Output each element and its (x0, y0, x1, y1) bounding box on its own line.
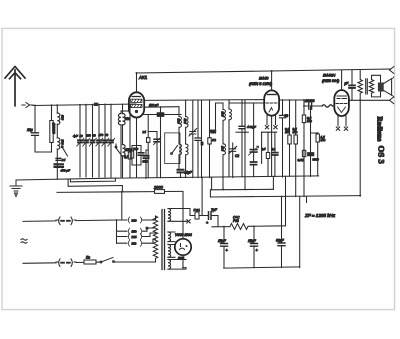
wire E446 top (271, 71, 273, 90)
IF transformer 1 primary coil (177, 107, 182, 144)
wire coupling node down (303, 100, 305, 197)
svg-text:500: 500 (183, 119, 187, 124)
tuning trimmer cap C-a (79, 105, 81, 177)
grid stopper coil DD (322, 105, 333, 107)
svg-text:4-50pF: 4-50pF (247, 125, 256, 129)
cathode bypass cap 10uF (178, 170, 193, 178)
svg-text:P68: P68 (233, 219, 239, 223)
svg-text:500: 500 (61, 115, 65, 120)
wire E446 bottom (271, 116, 273, 177)
svg-text:15μF: 15μF (218, 239, 227, 243)
resistor 0.2 (124, 104, 132, 177)
cap 100pF (149, 103, 163, 178)
IF transformer 2 frame wire (216, 103, 224, 133)
IF transformer 1 secondary coil (183, 100, 188, 144)
svg-text:0,2: 0,2 (124, 155, 129, 159)
transformer primary winding (153, 216, 157, 262)
capacitor 24 rect (142, 115, 150, 178)
transformer winding 3 (168, 245, 175, 258)
wire x223 extension (222, 177, 224, 190)
tuning trimmer cap C-b (85, 105, 87, 177)
svg-text:450 pF: 450 pF (61, 169, 71, 173)
tuning trimmer cap C-c (92, 105, 94, 177)
rectifier to bottom bus (183, 255, 186, 267)
oscillator coil column (123, 104, 133, 177)
osc grid coil to AK1 (118, 111, 121, 177)
power switch (100, 258, 155, 263)
svg-text:(RES 964): (RES 964) (322, 79, 340, 83)
wire AK1 left (grid) (121, 110, 129, 112)
svg-text:(REN S 1254): (REN S 1254) (249, 82, 273, 86)
svg-text:MΩ: MΩ (321, 138, 326, 142)
tone capacitor (344, 70, 355, 100)
bus wire y196.6 (B+) (210, 190, 360, 197)
transformer winding 2 (168, 232, 175, 242)
wire x281.5 to 30uF (281, 197, 283, 243)
filter resistor C+C P68 (212, 216, 286, 230)
svg-text:ZF = 1285 kHz: ZF = 1285 kHz (304, 213, 336, 218)
heater lead X marks (186, 220, 190, 223)
svg-text:500: 500 (61, 140, 65, 145)
cap under variable (251, 162, 257, 177)
voltage selector (117, 216, 156, 246)
electrolytic 15uF b (248, 227, 259, 268)
tuning trimmer cap C-d (98, 105, 100, 178)
electrolytic 7uF (199, 208, 218, 225)
svg-text:E443H: E443H (323, 73, 335, 78)
wire secondary to speaker loop (372, 75, 381, 97)
svg-text:OS 3: OS 3 (376, 146, 386, 165)
svg-text:1MΩ: 1MΩ (210, 129, 217, 133)
svg-text:170: 170 (99, 133, 104, 137)
capacitor 450pF (55, 164, 71, 172)
cathode bypass cap (137, 146, 144, 166)
trimmer C2 (229, 143, 240, 178)
resistor 0.5M grid leak (302, 115, 312, 123)
node x245 dot (244, 131, 246, 133)
tube E443H (334, 90, 349, 116)
svg-text:0,1M: 0,1M (298, 158, 305, 162)
cap 50 x198 (195, 100, 204, 178)
wire selector feed drop (121, 192, 123, 221)
output transformer secondary zigzag (369, 80, 373, 94)
svg-text:700: 700 (133, 147, 138, 151)
trimmer Cs (189, 100, 197, 178)
wire AK1 top to HT top bus (137, 69, 391, 92)
svg-text:100000: 100000 (52, 123, 56, 134)
heater pins E443H (336, 116, 347, 130)
connector pair upper (56, 219, 76, 221)
IF1 switch arm (172, 146, 178, 154)
band switch 2 (116, 148, 122, 156)
svg-text:5000: 5000 (313, 158, 320, 162)
wire y131.5 (148, 131, 157, 133)
band switch box (165, 133, 180, 164)
wire AVC feed y132 (236, 131, 248, 133)
fuse F2A (190, 208, 200, 219)
wire stub x211.6 (211, 177, 213, 190)
svg-text:10μ: 10μ (27, 128, 33, 132)
band switch left (62, 145, 68, 156)
IF transformer 2 primary coil (221, 103, 226, 144)
plate cap 50 (280, 100, 289, 177)
ground (top-left) (10, 180, 22, 197)
output transformer core (366, 79, 368, 94)
label Radione OS3 (375, 117, 386, 165)
svg-text:50: 50 (285, 114, 289, 118)
IF2 lower coil 100 (221, 144, 226, 178)
svg-text:100 pF: 100 pF (149, 103, 159, 107)
IF transformer 2 secondary coil (229, 100, 232, 177)
wire x202 (201, 177, 203, 215)
variable cap mid (247, 103, 259, 162)
resistor 700 on cathode (130, 146, 138, 166)
svg-text:24: 24 (142, 130, 147, 134)
svg-text:F.s: F.s (86, 256, 90, 260)
svg-text:220: 220 (132, 218, 137, 222)
mains upper wire (23, 220, 117, 221)
transformer winding 4 (168, 260, 186, 270)
antenna coil (57, 105, 64, 179)
capacitor 24 (56, 158, 65, 162)
svg-text:50: 50 (93, 133, 97, 137)
svg-text:VG60 1064: VG60 1064 (175, 233, 192, 237)
wire grid components y132 right (262, 131, 277, 133)
wire x285.5 riser (285, 176, 287, 226)
svg-text:F 2A: F 2A (194, 208, 200, 212)
svg-text:C2: C2 (235, 154, 239, 158)
resistor 0.1M (285, 100, 291, 176)
wire x183 rectifier feed (182, 192, 184, 239)
svg-text:AK1: AK1 (138, 75, 148, 80)
IF1 lower coil a (179, 144, 182, 169)
tube AK1 (129, 92, 144, 117)
svg-text:4pF: 4pF (73, 134, 78, 138)
rectifier tube VG60 (175, 233, 192, 261)
ground bus wire (16, 176, 319, 180)
bus wire y189.5 (212, 188, 274, 191)
svg-text:MΩ: MΩ (307, 119, 312, 123)
mains sign (21, 239, 27, 244)
tube E446 (264, 90, 279, 115)
tuning trimmer cap C-f (110, 104, 112, 177)
capacitor 500c (143, 150, 149, 178)
svg-text:500: 500 (221, 112, 225, 117)
wire AK1 screen lead (144, 106, 179, 109)
svg-text:110: 110 (132, 242, 137, 246)
connector pair lower (56, 261, 76, 263)
capacitor 5000 (308, 106, 319, 176)
wire E446 plate (279, 99, 304, 101)
wire plate line to terminal (349, 99, 390, 101)
wire x201.5 (201, 100, 203, 178)
antenna (5, 67, 25, 106)
svg-text:7μF: 7μF (211, 208, 218, 212)
wire AVC loop (68, 179, 122, 191)
resistor 1M label (210, 129, 217, 133)
bias resistor (262, 132, 270, 176)
pickup terminal bottom (390, 97, 394, 104)
electrolytic 15uF a (218, 227, 229, 268)
resistor 0.1M on riser (298, 150, 306, 162)
long avc riser (244, 100, 246, 190)
wire stub x306.5 (306, 197, 308, 203)
resistor x209.5 (208, 100, 217, 178)
svg-text:0,5: 0,5 (262, 147, 266, 151)
svg-text:2000: 2000 (153, 185, 164, 190)
fuse lower (84, 256, 96, 265)
svg-text:500: 500 (177, 119, 181, 124)
bottom bus (224, 267, 300, 268)
wire U-loop under ground bus (70, 178, 115, 182)
wire x261.6 drop (261, 132, 263, 163)
bias cap (272, 132, 278, 176)
svg-text:E446: E446 (259, 76, 269, 81)
svg-text:500: 500 (143, 160, 148, 164)
tuning trimmer cap C-e (104, 104, 106, 177)
wire right B+ riser (359, 100, 361, 195)
wire E446 grid (229, 102, 264, 104)
resistor 2000 (153, 185, 165, 194)
heater pins E446 (265, 115, 277, 129)
IF1 lower coil b (186, 144, 189, 178)
wire AK1 cathode lead (142, 114, 181, 116)
trimmer 250 (154, 132, 161, 178)
svg-text:150: 150 (132, 230, 137, 234)
svg-text:15μF: 15μF (248, 239, 257, 243)
resistor 0.5M (293, 100, 298, 197)
svg-text:30μF: 30μF (276, 239, 285, 243)
svg-text:100: 100 (221, 146, 225, 151)
resistor 1.5M (316, 134, 326, 142)
wire AK1 bottom (136, 118, 138, 178)
svg-text:50: 50 (105, 133, 109, 137)
svg-text:0,1: 0,1 (272, 147, 276, 151)
wire AK1 plate to right (144, 99, 263, 102)
antenna circuit cap 10u (27, 105, 52, 152)
wire stub x273.4 (272, 176, 274, 189)
wire to 1.5M resistor (311, 133, 318, 176)
svg-text:50: 50 (80, 134, 84, 138)
node dots on y189.5 (223, 189, 225, 191)
pickup terminal top (390, 67, 394, 74)
svg-text:125: 125 (132, 235, 137, 239)
transformer HT winding (168, 209, 190, 222)
output transformer primary zigzag (358, 70, 362, 100)
cap x242 (239, 100, 245, 177)
svg-text:MΩ: MΩ (285, 130, 290, 134)
electrolytic 30uF (276, 239, 285, 268)
node AVC junction (121, 191, 123, 193)
mains lower wire (23, 262, 100, 263)
power transformer core (162, 210, 165, 270)
svg-text:10000: 10000 (305, 99, 315, 103)
svg-text:10μF: 10μF (185, 171, 193, 175)
bus wire y191.5 heater line (57, 191, 183, 192)
svg-text:250: 250 (85, 134, 91, 138)
svg-text:24: 24 (61, 158, 66, 162)
svg-text:Radione: Radione (375, 117, 383, 142)
junction blob on bus (94, 103, 98, 106)
antenna connector (22, 103, 33, 108)
antenna resistor 100000 (50, 105, 56, 152)
wire E443H top (341, 70, 343, 90)
speaker (378, 77, 394, 97)
variable cap bank (73, 104, 115, 177)
svg-text:MΩ: MΩ (293, 130, 298, 134)
coupling capacitor 10000 (304, 99, 322, 109)
wire x299 (299, 197, 301, 268)
wire antenna to tuner bus (33, 104, 136, 106)
